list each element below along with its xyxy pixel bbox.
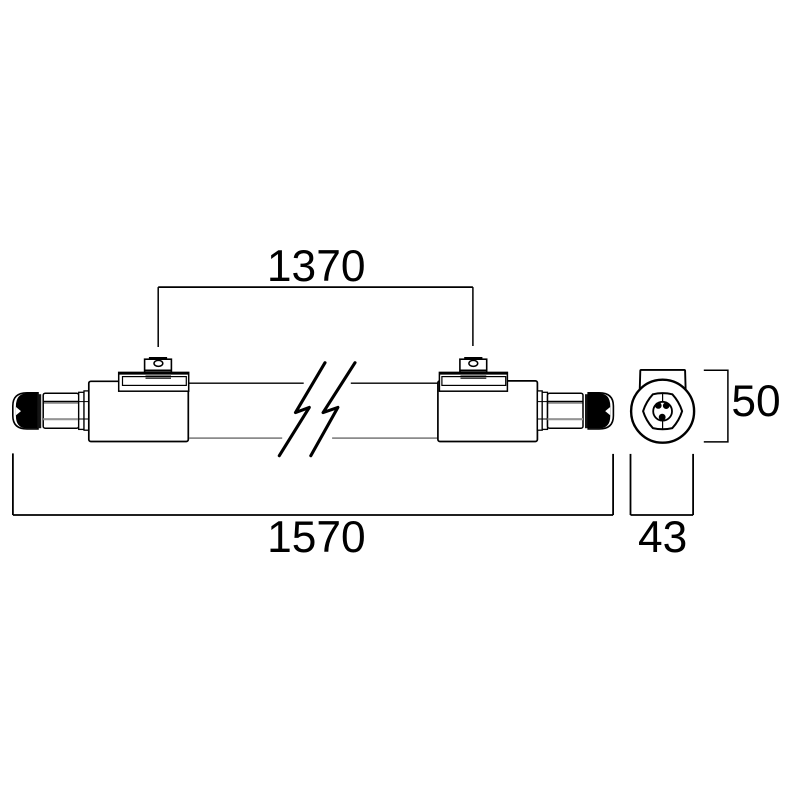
right bracket screw lug [460, 357, 487, 378]
svg-text:50: 50 [731, 377, 780, 426]
dimension 1370 line [158, 286, 473, 288]
dimension 1370 left extension [157, 287, 159, 347]
svg-text:1370: 1370 [267, 242, 366, 291]
left lug screw hole [154, 360, 163, 366]
left spacer ring ticks [79, 402, 89, 419]
left cable gland dome cap [13, 393, 38, 429]
left gland locknut [43, 393, 78, 428]
left spacer ring outer [79, 392, 84, 429]
right gland seal collar [585, 394, 588, 428]
right gland locknut [548, 393, 584, 428]
tube upper right edge [351, 382, 438, 384]
dimension 1570 line [13, 514, 613, 516]
tube lower left edge [189, 437, 282, 439]
svg-text:1570: 1570 [267, 513, 366, 562]
end view gland nut hexagon [643, 393, 682, 429]
left spacer ring inner [84, 391, 89, 430]
svg-text:43: 43 [638, 513, 687, 562]
end view square housing [639, 370, 687, 427]
left gland seal collar [38, 394, 41, 428]
right spacer ring ticks [537, 402, 547, 419]
end view outer circle [631, 380, 694, 443]
right lug screw hole [469, 360, 478, 366]
dimension 43 line [631, 514, 694, 516]
end view vertical center line [662, 393, 664, 430]
left mounting bracket plate [119, 372, 189, 391]
tube lower right edge [332, 437, 438, 439]
tube upper left edge [189, 382, 304, 384]
left bracket screw lug [145, 357, 172, 378]
right cable gland dome cap [588, 393, 613, 429]
dimension 1570 left extension [12, 453, 14, 515]
right spacer ring inner [537, 391, 542, 430]
right mounting bracket plate [439, 372, 507, 391]
dimension 1370 right extension [472, 287, 474, 346]
break symbol right bolt [311, 363, 355, 456]
right end cap body [438, 381, 538, 442]
dimension 1570 right extension [612, 454, 614, 515]
break symbol left bolt [279, 363, 325, 456]
dimension 50 bracket [704, 370, 728, 442]
dimension 43 right extension [692, 454, 694, 515]
end view anti-rotation lobes [655, 402, 670, 420]
right spacer ring outer [542, 392, 547, 429]
left end cap body [89, 381, 189, 441]
end view cable hole [653, 402, 672, 421]
dimension 43 left extension [630, 454, 632, 515]
